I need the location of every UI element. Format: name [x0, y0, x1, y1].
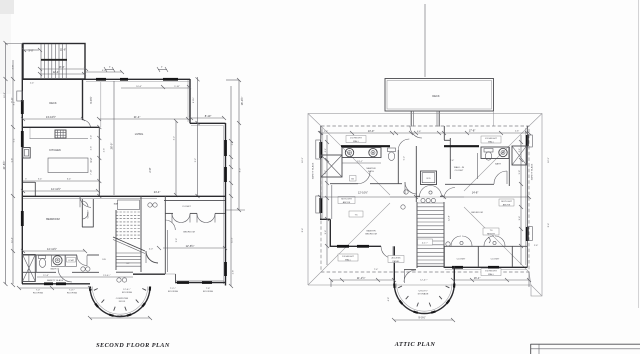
svg-text:MASTER: MASTER	[366, 167, 376, 170]
svg-text:8'-0": 8'-0"	[240, 168, 242, 173]
svg-text:SKYLIGHT: SKYLIGHT	[341, 199, 352, 201]
svg-text:4": 4"	[109, 67, 111, 69]
svg-text:11'-8": 11'-8"	[43, 275, 49, 277]
svg-text:26'-0": 26'-0"	[110, 143, 114, 150]
svg-text:3'-0": 3'-0"	[28, 49, 33, 53]
svg-text:4'-6": 4'-6"	[417, 131, 422, 133]
svg-text:16'-5": 16'-5"	[302, 157, 304, 163]
svg-text:2'-6": 2'-6"	[534, 245, 539, 247]
svg-text:16'-5": 16'-5"	[548, 157, 550, 163]
svg-text:14'-8": 14'-8"	[472, 191, 479, 195]
svg-text:2'-6": 2'-6"	[515, 131, 520, 133]
svg-text:UP: UP	[126, 263, 130, 265]
svg-text:9'-4": 9'-4"	[325, 230, 327, 235]
svg-text:5'-1": 5'-1"	[14, 138, 16, 143]
svg-text:13'-0": 13'-0"	[368, 129, 375, 133]
svg-text:ABOVE: ABOVE	[503, 203, 511, 206]
svg-text:16'-0½": 16'-0½"	[240, 97, 244, 106]
svg-text:COMPUTER: COMPUTER	[116, 298, 129, 300]
svg-text:CLOSET: CLOSET	[491, 259, 500, 261]
svg-text:ACCESS: ACCESS	[392, 257, 402, 260]
svg-text:9'-8½": 9'-8½"	[89, 96, 93, 103]
svg-text:9'-0½": 9'-0½"	[418, 316, 425, 320]
svg-text:9'-0": 9'-0"	[117, 314, 122, 318]
svg-text:SECOND FLOOR PLAN: SECOND FLOOR PLAN	[96, 342, 170, 349]
svg-text:ROOFING: ROOFING	[33, 293, 44, 295]
svg-text:4'-8": 4'-8"	[388, 297, 390, 302]
svg-text:WALL: WALL	[353, 140, 360, 143]
svg-text:WALL: WALL	[488, 140, 495, 143]
svg-text:12'-4": 12'-4"	[53, 70, 60, 74]
svg-text:SAFETY GLASS: SAFETY GLASS	[47, 279, 64, 282]
svg-text:5'-8": 5'-8"	[519, 170, 521, 175]
svg-text:ROOFING: ROOFING	[203, 291, 214, 293]
svg-text:6'-1": 6'-1"	[519, 148, 521, 153]
svg-text:14'-11½": 14'-11½"	[47, 247, 57, 251]
svg-text:ATTIC PLAN: ATTIC PLAN	[394, 341, 436, 348]
svg-text:7'-4": 7'-4"	[450, 160, 455, 162]
svg-text:13'-1": 13'-1"	[357, 161, 363, 163]
svg-text:BATH: BATH	[495, 163, 501, 166]
svg-text:2'-6": 2'-6"	[324, 131, 329, 133]
svg-text:SKYLIGHT: SKYLIGHT	[501, 201, 512, 203]
svg-text:12'-6½": 12'-6½"	[186, 244, 195, 248]
svg-text:BEDROOM: BEDROOM	[471, 212, 482, 214]
svg-text:8'-10": 8'-10"	[12, 97, 14, 103]
svg-text:UTILITY/: UTILITY/	[419, 291, 428, 293]
svg-text:6'-4": 6'-4"	[67, 179, 72, 181]
svg-text:7'-4": 7'-4"	[374, 269, 379, 271]
svg-text:ROOFING: ROOFING	[122, 292, 133, 294]
svg-text:4'0 HEIGHT: 4'0 HEIGHT	[350, 138, 362, 140]
svg-text:3'-2": 3'-2"	[195, 158, 197, 163]
svg-text:SAFETY GLASS: SAFETY GLASS	[312, 162, 315, 179]
svg-text:COAT: COAT	[68, 259, 75, 262]
svg-text:BATH: BATH	[51, 268, 57, 271]
svg-text:NOOK: NOOK	[119, 301, 126, 303]
svg-text:5'-10": 5'-10"	[174, 86, 180, 88]
svg-text:PANEL: PANEL	[392, 260, 400, 263]
svg-text:MASTER: MASTER	[366, 230, 376, 233]
svg-text:LIVING: LIVING	[135, 132, 144, 136]
svg-text:BEDROOM: BEDROOM	[46, 217, 59, 221]
svg-text:24'-4": 24'-4"	[154, 190, 161, 194]
svg-text:2'-6": 2'-6"	[91, 146, 93, 151]
svg-text:SAFETY GLASS: SAFETY GLASS	[531, 163, 534, 180]
svg-text:5'6 HEIGHT: 5'6 HEIGHT	[485, 271, 497, 273]
svg-text:8'-4": 8'-4"	[302, 228, 304, 233]
svg-text:5'6 HEIGHT: 5'6 HEIGHT	[342, 256, 354, 258]
svg-text:6'-1": 6'-1"	[325, 148, 327, 153]
svg-text:7'-8": 7'-8"	[206, 288, 211, 290]
svg-text:10'-6": 10'-6"	[136, 86, 142, 88]
svg-text:11'-4": 11'-4"	[12, 237, 14, 243]
svg-text:3'-4": 3'-4"	[38, 179, 43, 181]
svg-text:5'-2": 5'-2"	[325, 170, 327, 175]
svg-text:ROOFING: ROOFING	[67, 293, 78, 295]
svg-text:W.D: W.D	[426, 178, 431, 180]
svg-text:2'-4": 2'-4"	[30, 83, 35, 85]
svg-text:12'-8": 12'-8"	[449, 215, 451, 221]
svg-text:DECK: DECK	[49, 101, 56, 105]
svg-text:3'-2": 3'-2"	[89, 157, 93, 162]
svg-text:5'-2": 5'-2"	[404, 156, 406, 161]
svg-text:8'-4": 8'-4"	[59, 65, 64, 69]
svg-text:BATH: BATH	[368, 170, 374, 173]
svg-text:ROOFING: ROOFING	[168, 291, 179, 293]
svg-text:21'-4": 21'-4"	[134, 115, 141, 119]
svg-text:14'-11½": 14'-11½"	[51, 187, 61, 191]
svg-text:4": 4"	[161, 67, 163, 69]
svg-text:CLOSET: CLOSET	[455, 170, 464, 172]
svg-text:WALL: WALL	[345, 258, 352, 261]
svg-text:4'0 HEIGHT: 4'0 HEIGHT	[485, 138, 497, 140]
svg-text:13'-10½": 13'-10½"	[46, 115, 56, 119]
svg-text:8'-4": 8'-4"	[548, 223, 550, 228]
svg-text:WALK - IN: WALK - IN	[454, 166, 465, 169]
svg-text:WALL: WALL	[488, 273, 495, 276]
svg-text:ABOVE: ABOVE	[343, 201, 351, 204]
svg-text:3'-2": 3'-2"	[173, 136, 175, 141]
svg-text:11'-1½": 11'-1½"	[357, 276, 366, 280]
svg-text:BEDROOM: BEDROOM	[183, 232, 194, 234]
svg-text:2'-6": 2'-6"	[104, 148, 106, 153]
svg-text:2'-8": 2'-8"	[148, 167, 152, 172]
svg-text:BAR: BAR	[114, 203, 119, 206]
svg-text:8'-1": 8'-1"	[14, 101, 16, 106]
svg-text:CLOSET: CLOSET	[457, 259, 466, 261]
svg-text:DN: DN	[102, 259, 106, 261]
svg-text:5'-8": 5'-8"	[12, 158, 14, 163]
svg-text:16'-1": 16'-1"	[474, 276, 481, 280]
svg-text:11'-0": 11'-0"	[231, 237, 233, 243]
svg-text:BEDROOM: BEDROOM	[365, 234, 376, 236]
svg-text:8'-10": 8'-10"	[205, 114, 212, 118]
svg-text:17'-8": 17'-8"	[469, 129, 476, 133]
svg-text:9'-4": 9'-4"	[519, 216, 521, 221]
svg-text:21'-6½": 21'-6½"	[2, 161, 6, 170]
svg-text:7'-0": 7'-0"	[36, 290, 41, 292]
svg-text:12'-10½": 12'-10½"	[358, 191, 368, 195]
svg-text:3'-4": 3'-4"	[91, 135, 93, 140]
svg-text:4'-0": 4'-0"	[149, 249, 154, 251]
svg-text:11'-6": 11'-6"	[60, 48, 66, 52]
svg-text:HEIGHT: HEIGHT	[487, 233, 496, 235]
svg-text:2'-8": 2'-8"	[233, 270, 235, 275]
svg-text:CLOSET: CLOSET	[182, 206, 191, 208]
svg-text:7'-10": 7'-10"	[91, 169, 93, 175]
svg-text:3'-6": 3'-6"	[176, 238, 178, 243]
svg-text:KITCHEN: KITCHEN	[49, 148, 61, 152]
svg-text:STORAGE: STORAGE	[418, 293, 429, 296]
svg-text:DECK: DECK	[432, 94, 439, 98]
